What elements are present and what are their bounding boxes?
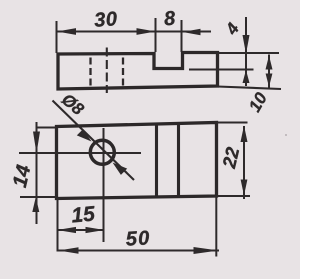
- arrow 30 left: [57, 28, 76, 35]
- dimension line 4: [245, 17, 247, 86]
- hole centerline horizontal: [19, 152, 141, 154]
- arrow 22 up: [241, 126, 248, 143]
- arrow 15 left: [57, 227, 76, 233]
- leader line for hole diameter: [53, 101, 135, 181]
- dimension line 15: [57, 229, 105, 231]
- bottom edge extension right (for 22/50): [217, 195, 251, 197]
- arrow 14 upper (down): [33, 132, 40, 154]
- arrow 14 lower (up): [32, 197, 39, 212]
- label 30: [95, 11, 117, 26]
- notch bottom extension right (for 4): [189, 68, 254, 70]
- dimension line 10: [268, 55, 270, 89]
- leader arrow upper: [77, 129, 92, 141]
- leader arrow lower: [113, 163, 128, 175]
- label 10: [251, 92, 266, 113]
- arrow 50 right: [194, 247, 219, 254]
- label 22: [223, 147, 239, 169]
- top edge extension right (for 4/10): [218, 52, 280, 54]
- label diameter 8: [60, 95, 84, 114]
- dimension line 14: [36, 122, 38, 224]
- hole centerline vertical: [103, 128, 105, 242]
- left edge extension down (for 15/50): [57, 199, 59, 252]
- hidden line left (hole edge): [89, 58, 91, 87]
- notch edge line left (plan): [155, 125, 158, 198]
- arrow 4 upper (down): [243, 35, 250, 54]
- top edge extension left (for 14 area): [37, 127, 57, 129]
- scan speck: [285, 134, 287, 136]
- label 14: [14, 164, 30, 188]
- label 4: [228, 22, 238, 35]
- dimension line 30/8: [57, 31, 212, 33]
- arrow 10 up: [266, 56, 273, 70]
- label 50: [126, 231, 149, 246]
- arrow 50 left: [59, 247, 79, 253]
- extension line notch-right (for 8): [181, 20, 183, 52]
- hidden line right (hole edge): [122, 58, 124, 87]
- bottom edge extension left (for 14): [20, 196, 57, 198]
- label 8: [165, 11, 175, 25]
- dimension line 22: [243, 126, 245, 199]
- extension line left (for 30): [56, 21, 58, 53]
- arrow 10 down: [266, 74, 273, 88]
- bottom edge extension right (for 10): [218, 87, 282, 90]
- front view outline: [58, 53, 218, 90]
- dimension line 50: [58, 250, 219, 252]
- hole circle: [90, 140, 114, 164]
- arrow 30 right: [137, 28, 156, 35]
- arrow 4 lower (up): [243, 70, 250, 83]
- label 15: [72, 206, 94, 223]
- notch edge line right (plan): [177, 125, 180, 198]
- arrow 15 right: [86, 227, 105, 233]
- hole centerline (front view): [106, 48, 108, 94]
- arrow 8 right: [183, 29, 201, 35]
- right edge extension down (for 50): [215, 196, 217, 257]
- extension line notch-left (for 30/8): [155, 18, 157, 52]
- top edge extension right (for 22): [217, 122, 248, 124]
- arrow 22 down: [241, 180, 248, 196]
- plan view outline: [57, 123, 217, 199]
